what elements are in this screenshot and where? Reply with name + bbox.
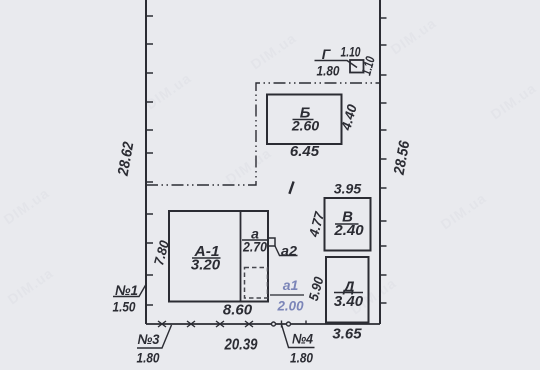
bottom fence line [146,323,380,325]
svg-text:1.10: 1.10 [341,45,361,60]
leader a2 [275,246,298,256]
leader 4 [282,321,315,348]
gate circles [272,322,291,326]
divider wall [240,211,242,302]
fraction bar В [335,223,359,225]
left boundary ticks [146,16,154,305]
svg-text:3.65: 3.65 [332,326,362,343]
svg-text:2.00: 2.00 [277,298,304,314]
svg-text:№4: №4 [292,331,313,347]
building Г (small square) [350,60,364,73]
underline 3 [137,325,172,348]
building B (Б) [267,95,342,145]
porch a2 [268,238,275,246]
svg-text:а1: а1 [283,277,299,293]
svg-text:6.45: 6.45 [290,143,320,160]
svg-text:3.95: 3.95 [334,181,361,197]
conditional boundary dash-dot line [146,83,380,185]
building D (Д) [326,257,369,323]
svg-text:3.20: 3.20 [191,257,221,274]
svg-text:1.80: 1.80 [290,350,313,366]
underline 1 [113,284,147,297]
leader line Г [315,61,358,68]
fraction bar Д [334,292,363,294]
building V (В) [325,198,371,251]
svg-text:2.60: 2.60 [291,118,319,134]
svg-text:3.40: 3.40 [334,293,364,310]
svg-text:1.50: 1.50 [113,299,136,315]
right boundary line [379,0,381,324]
fraction bar a1 [270,294,304,296]
svg-text:1.80: 1.80 [137,350,160,366]
section label I [289,182,293,194]
svg-text:2.70: 2.70 [242,240,267,255]
underline A-1 [192,257,221,259]
fraction bar Б [293,119,314,121]
dashed annex a1 [245,268,268,299]
building A-1 [169,211,268,302]
fraction bar a/2.70 [242,239,269,241]
svg-text:№3: №3 [138,331,160,347]
svg-text:а2: а2 [281,243,297,259]
svg-text:1.80: 1.80 [317,64,340,79]
svg-text:20.39: 20.39 [224,337,258,354]
fence tick [305,321,307,325]
svg-text:8.60: 8.60 [223,302,253,319]
svg-text:№1: №1 [115,282,138,298]
fence X marks [158,321,253,327]
right boundary ticks [380,18,387,303]
left boundary line [145,0,147,324]
svg-text:2.40: 2.40 [333,222,364,239]
svg-text:Г: Г [322,46,332,62]
